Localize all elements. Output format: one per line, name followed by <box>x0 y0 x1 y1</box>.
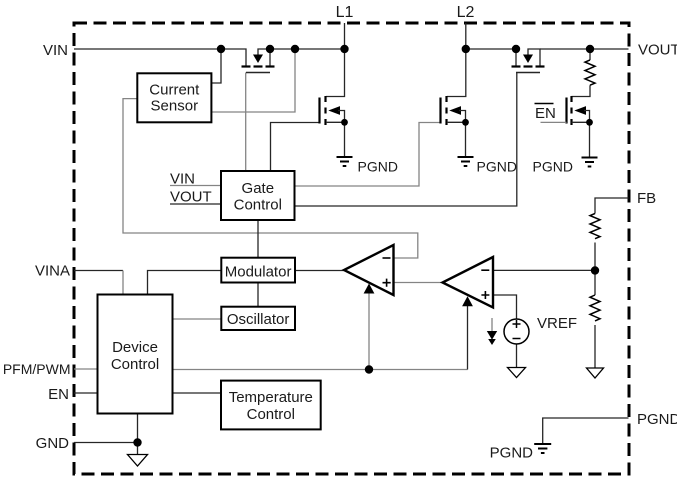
wire Current Sensor lower right up to rail dot3 <box>211 49 295 112</box>
wire PGND pin to internal ground <box>543 418 629 444</box>
wire VOUT node down to resistor <box>589 49 591 60</box>
wire rail Q4 to VOUT pin <box>540 48 629 50</box>
svg-text:PGND: PGND <box>637 411 677 428</box>
wire EN pin stub <box>74 392 98 394</box>
transistor Q5 PMOS (output discharge, EN) <box>567 96 590 158</box>
transistor Q1 body diode <box>253 55 263 64</box>
wire Current Sensor left to error amp E1 inverting input <box>123 99 418 258</box>
wire arrow into E1 from PFM/PWM line <box>368 293 370 370</box>
transistor Q4 top PMOS pass switch contact bars <box>512 65 545 67</box>
wire resistor bottom to Q5 drain <box>572 85 591 96</box>
transistor Q2 NMOS (L1 low side) <box>320 96 345 157</box>
wire E2 inverting input to FB node <box>493 269 595 271</box>
svg-text:VREF: VREF <box>537 315 577 332</box>
svg-text:Sensor: Sensor <box>151 98 199 115</box>
transistor Q4 gate line <box>516 72 540 74</box>
wire error amp E1 plus input to E2 output <box>394 282 442 284</box>
svg-text:VINA: VINA <box>35 263 70 280</box>
ground PGND (bottom right internal) <box>534 444 551 453</box>
node dot VIN rail junction 2 <box>266 45 274 53</box>
svg-text:GND: GND <box>36 435 70 452</box>
arrow into E2 bottom <box>462 296 473 306</box>
transistor Q1 gate line <box>246 72 270 74</box>
wire L1 pin down through rail to NMOS Q2 drain <box>326 23 345 97</box>
wire Device Control right to comparator arrows (PFM/PWM line) <box>173 369 468 371</box>
wire L2 pin down through rail to NMOS Q3 drain <box>447 23 466 97</box>
wire rail dot2 to L1 node <box>270 48 345 50</box>
svg-text:EN: EN <box>535 105 556 122</box>
ground PGND (under Q5) <box>582 158 598 167</box>
op-amp E1 (error amplifier) <box>344 245 394 295</box>
node dot FB divider middle <box>591 266 599 274</box>
node dot VOUT junction <box>586 45 594 53</box>
transistor Q4 body diode <box>523 55 533 64</box>
wire Q4 diode anode and right stub <box>528 49 540 66</box>
ground PGND (under Q3) <box>458 157 474 166</box>
svg-text:Control: Control <box>247 406 295 423</box>
svg-text:L1: L1 <box>336 4 354 21</box>
wire VIN rail left segment <box>74 48 221 50</box>
svg-text:PFM/PWM: PFM/PWM <box>3 361 71 377</box>
node dot Q4 source <box>512 45 520 53</box>
current arrow beside VREF <box>487 318 497 345</box>
wire dot1 down to Current Sensor right edge <box>211 49 221 83</box>
wire PMOS Q1 gate down to Gate Control <box>245 73 247 172</box>
voltage source VREF <box>504 319 529 344</box>
svg-text:Control: Control <box>111 356 159 373</box>
IC boundary dashed border <box>74 23 629 474</box>
wire Oscillator left to Device Control right <box>173 318 222 320</box>
wire FB divider bottom to ground <box>594 325 596 368</box>
wire GND pin to ground node <box>74 442 138 444</box>
svg-text:VOUT: VOUT <box>638 42 677 59</box>
wire Device Control top to Modulator left <box>148 271 222 295</box>
svg-text:Gate: Gate <box>242 180 275 197</box>
block Oscillator <box>221 307 295 330</box>
arrow into E1 bottom <box>364 284 375 294</box>
ground PGND (under Q2) <box>337 157 353 166</box>
svg-text:Current: Current <box>149 82 200 99</box>
wire E2 plus input to VREF source <box>493 295 517 319</box>
svg-text:Temperature: Temperature <box>229 389 313 406</box>
svg-text:Modulator: Modulator <box>225 263 292 280</box>
node dot VIN rail junction 1 <box>217 45 225 53</box>
svg-text:VOUT: VOUT <box>170 189 212 206</box>
node dot Q3 source <box>462 119 469 126</box>
wire Gate Control bottom to Modulator top <box>257 220 259 258</box>
wire dot1 to PMOS Q1 source stub <box>221 49 246 66</box>
resistor (FB divider lower) <box>590 295 600 321</box>
block Current Sensor <box>137 73 211 122</box>
svg-text:VIN: VIN <box>43 42 68 59</box>
ground (below FB divider) <box>587 368 604 378</box>
node dot Q2 source <box>341 119 348 126</box>
wire Modulator output to error amp E1 output <box>295 270 344 272</box>
node dot L2 <box>462 45 470 53</box>
resistor (VOUT pulldown top) <box>585 60 595 85</box>
node dot Q5 source <box>586 119 593 126</box>
wire Q5 gate lead <box>541 121 567 123</box>
op-amp E2 (error amplifier) <box>443 257 494 308</box>
wire Device Control to Temperature Control <box>173 392 222 394</box>
svg-text:Oscillator: Oscillator <box>227 311 290 328</box>
transistor Q3 NMOS (L2 low side) <box>441 96 466 157</box>
wire Q1 diode anode and drain stub to dot2 <box>258 49 270 66</box>
node dot PFM/PWM line junction <box>365 365 373 373</box>
wire VREF source bottom to ground <box>516 344 518 368</box>
svg-text:PGND: PGND <box>490 445 534 462</box>
wire FB divider middle node <box>594 243 596 296</box>
block Device Control <box>98 295 173 414</box>
wire Gate Control right to NMOS Q3 gate <box>295 123 440 187</box>
wire Device Control bottom to GND node and ground <box>137 414 139 455</box>
node dot VIN rail junction 3 <box>291 45 299 53</box>
wire rail L2 node to PMOS Q4 left stub <box>466 49 516 66</box>
svg-text:EN: EN <box>48 386 69 403</box>
svg-text:L2: L2 <box>457 4 475 21</box>
svg-text:PGND: PGND <box>477 159 517 175</box>
svg-text:FB: FB <box>637 190 656 207</box>
node dot L1 <box>340 45 348 53</box>
wire VINA riser into Device Control top <box>122 271 124 295</box>
wire NMOS Q2 gate to Gate Control top <box>271 123 320 172</box>
wire VINA pin <box>74 270 123 272</box>
svg-text:PGND: PGND <box>533 159 573 175</box>
ground (below VREF) <box>508 368 526 378</box>
block Temperature Control <box>221 381 321 430</box>
wire Gate Control right to PMOS Q4 gate <box>295 73 517 207</box>
svg-text:PGND: PGND <box>358 159 398 175</box>
wire FB pin to divider top <box>595 198 629 214</box>
node dot GND <box>133 438 141 446</box>
wire PFM/PWM pin stub <box>74 368 98 370</box>
block Modulator <box>221 258 295 283</box>
svg-text:Device: Device <box>112 339 158 356</box>
wire Modulator bottom to Oscillator top <box>257 283 259 307</box>
block Gate Control <box>221 171 295 220</box>
transistor Q1 top PMOS pass switch contact bars <box>242 65 275 67</box>
resistor (FB divider upper) <box>590 214 600 239</box>
ground (analog, below GND pin dot) <box>128 455 148 467</box>
wire arrow into E2 from PFM/PWM line <box>467 305 469 370</box>
svg-text:Control: Control <box>234 197 282 214</box>
